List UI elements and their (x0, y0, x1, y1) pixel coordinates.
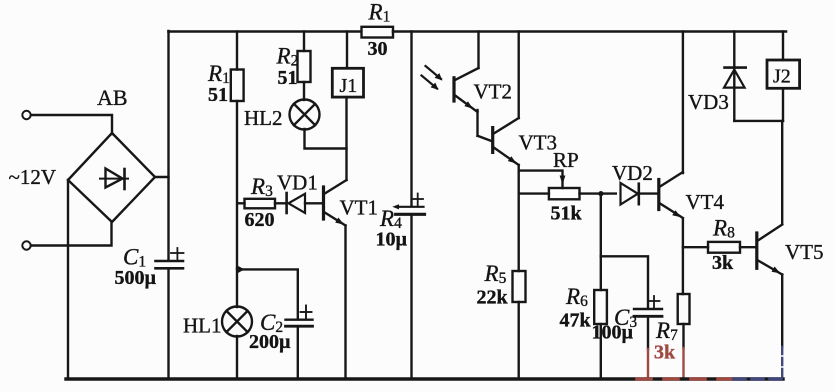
svg-text:30: 30 (368, 38, 388, 60)
label R4 (379, 206, 402, 232)
resistor R1 (30) top (362, 27, 394, 38)
label R5 (484, 261, 507, 287)
label VD3 (688, 90, 729, 114)
wire C3 to bus black part (647, 316, 649, 349)
relay J2 (767, 32, 800, 121)
transistor VT3 (493, 118, 519, 165)
svg-text:RP: RP (553, 148, 579, 172)
potentiometer RP (549, 188, 580, 199)
svg-text:J1: J1 (340, 75, 358, 97)
svg-text:100µ: 100µ (592, 322, 634, 344)
wire C1 to bus (167, 268, 169, 379)
svg-text:VT5: VT5 (785, 240, 824, 264)
capacitor C1 (156, 248, 184, 268)
svg-text:VD1: VD1 (277, 171, 318, 195)
label 3k red (654, 342, 676, 364)
svg-text:22k: 22k (477, 287, 509, 309)
wire C2 to bus (297, 326, 299, 379)
wire junction to C2 (238, 269, 298, 318)
terminal bottom input (22, 241, 30, 249)
wire bridge negative to bottom bus (67, 180, 69, 379)
label R6 (565, 284, 588, 310)
lamp HL1 (222, 307, 252, 337)
label AB (97, 85, 128, 110)
svg-text:3k: 3k (712, 252, 734, 274)
svg-text:500µ: 500µ (115, 267, 157, 289)
label R2 (276, 44, 299, 70)
wire VT5 collector riser (781, 121, 783, 224)
svg-text:VD3: VD3 (688, 90, 729, 114)
label VD2 (612, 161, 653, 185)
label VT1 (340, 196, 379, 220)
svg-text:AB: AB (97, 85, 128, 110)
wire VT4 collector riser (682, 32, 684, 174)
wire VT5 emitter blue part (781, 347, 783, 379)
label VD1 (277, 171, 318, 195)
label HL1 (183, 314, 222, 338)
wire RP left branch (519, 192, 549, 194)
wire J1 to VT1 collector (345, 97, 347, 180)
svg-text:VT4: VT4 (686, 190, 725, 214)
bottom bus red dash overlay (637, 377, 733, 381)
label R3 (250, 174, 273, 200)
wire VT5 emitter black part (781, 275, 783, 348)
node junction C2 branch (238, 266, 245, 274)
svg-text:10µ: 10µ (376, 229, 408, 251)
label 3k R8 (712, 252, 734, 274)
label R1 (207, 61, 230, 87)
transistor VT5 (757, 225, 782, 275)
label C3 (614, 305, 637, 331)
phototransistor VT2 (454, 32, 479, 136)
bottom bus blue dash overlay (734, 377, 783, 381)
resistor R2 (298, 32, 311, 101)
resistor R3 (238, 199, 287, 209)
wire R4 to bus (410, 216, 412, 379)
transistor VT1 (324, 180, 347, 226)
label 30 (368, 38, 388, 60)
svg-text:200µ: 200µ (249, 331, 291, 353)
svg-text:VD2: VD2 (612, 161, 653, 185)
svg-text:620: 620 (245, 209, 275, 231)
svg-text:51k: 51k (551, 203, 583, 225)
relay J1 (332, 32, 363, 98)
label VT5 (785, 240, 824, 264)
wire VD3 to J2 bottom (734, 120, 783, 122)
wire RP wiper branch (519, 171, 563, 188)
svg-text:~12V: ~12V (9, 165, 57, 189)
resistor R8 (708, 242, 755, 253)
label VT4 (686, 190, 725, 214)
label R1 top (368, 0, 391, 26)
label VT2 (474, 80, 513, 104)
label 500u (115, 267, 157, 289)
svg-text:HL2: HL2 (244, 106, 283, 130)
svg-text:HL1: HL1 (183, 314, 222, 338)
label R8 (712, 216, 735, 242)
wire riser R4 branch (410, 32, 412, 206)
capacitor C2 (286, 306, 313, 327)
svg-text:47k: 47k (560, 310, 592, 332)
diode VD3 (724, 32, 746, 121)
label 51 (208, 84, 228, 106)
bridge rectifier AB (68, 133, 155, 222)
transistor VT4 (659, 172, 683, 218)
wire VT4 emitter down (682, 219, 684, 295)
label 10u (376, 229, 408, 251)
top rail right (393, 30, 786, 33)
capacitor R4 (10u) (392, 194, 424, 215)
resistor R5 (513, 271, 526, 379)
label C1 (123, 245, 146, 271)
wire C3 to bus red part (647, 349, 649, 379)
label 100u (592, 322, 634, 344)
label 51k (551, 203, 583, 225)
wire VT3 emitter down (518, 165, 520, 271)
label J2 (773, 66, 791, 88)
svg-text:J2: J2 (773, 66, 791, 88)
label ~12V (9, 165, 57, 189)
wire R7 to bus red part (682, 348, 684, 379)
terminal top input (22, 111, 30, 119)
diode VD2 (621, 183, 659, 205)
wire RP to VD2 (580, 191, 616, 196)
wire bridge positive stub (155, 176, 169, 178)
resistor R1 (51) (231, 32, 244, 269)
wire R8 branch (683, 246, 708, 248)
resistor R6 (594, 256, 607, 379)
wire R7 to bus black part (682, 324, 684, 348)
wire R6 branch down (601, 194, 648, 308)
light arrows (422, 66, 443, 90)
label RP (553, 148, 579, 172)
label 47k (560, 310, 592, 332)
bottom bus (66, 377, 783, 380)
wire VT1 emitter to bus (344, 226, 346, 380)
label HL2 (244, 106, 283, 130)
label 51 R2 (278, 67, 298, 89)
svg-text:51: 51 (278, 67, 298, 89)
label J1 (340, 75, 358, 97)
wire HL1 top (236, 269, 238, 307)
label C2 (260, 310, 283, 336)
svg-text:VT2: VT2 (474, 80, 513, 104)
label 200u (249, 331, 291, 353)
diode VD1 (287, 193, 322, 213)
svg-text:VT3: VT3 (519, 131, 558, 155)
label R7 (655, 318, 678, 344)
svg-text:VT1: VT1 (340, 196, 379, 220)
wire HL1 to bus (236, 336, 238, 379)
svg-text:51: 51 (208, 84, 228, 106)
top rail (169, 30, 362, 33)
wire HL2 to node (305, 129, 347, 149)
wiper arrow (560, 176, 566, 185)
capacitor C3 (634, 296, 662, 316)
label 620 (245, 209, 275, 231)
wire top input to bridge (31, 115, 112, 134)
label 22k (477, 287, 509, 309)
svg-text:3k: 3k (654, 342, 676, 364)
lamp HL2 (290, 100, 320, 130)
resistor R7 (678, 294, 690, 324)
wire VT2 emitter to VT3 base (478, 136, 493, 142)
label VT3 (519, 131, 558, 155)
wire VT3 collector riser (518, 32, 520, 119)
wire bottom input to bridge (31, 223, 112, 246)
wire positive riser x168 (167, 31, 169, 260)
